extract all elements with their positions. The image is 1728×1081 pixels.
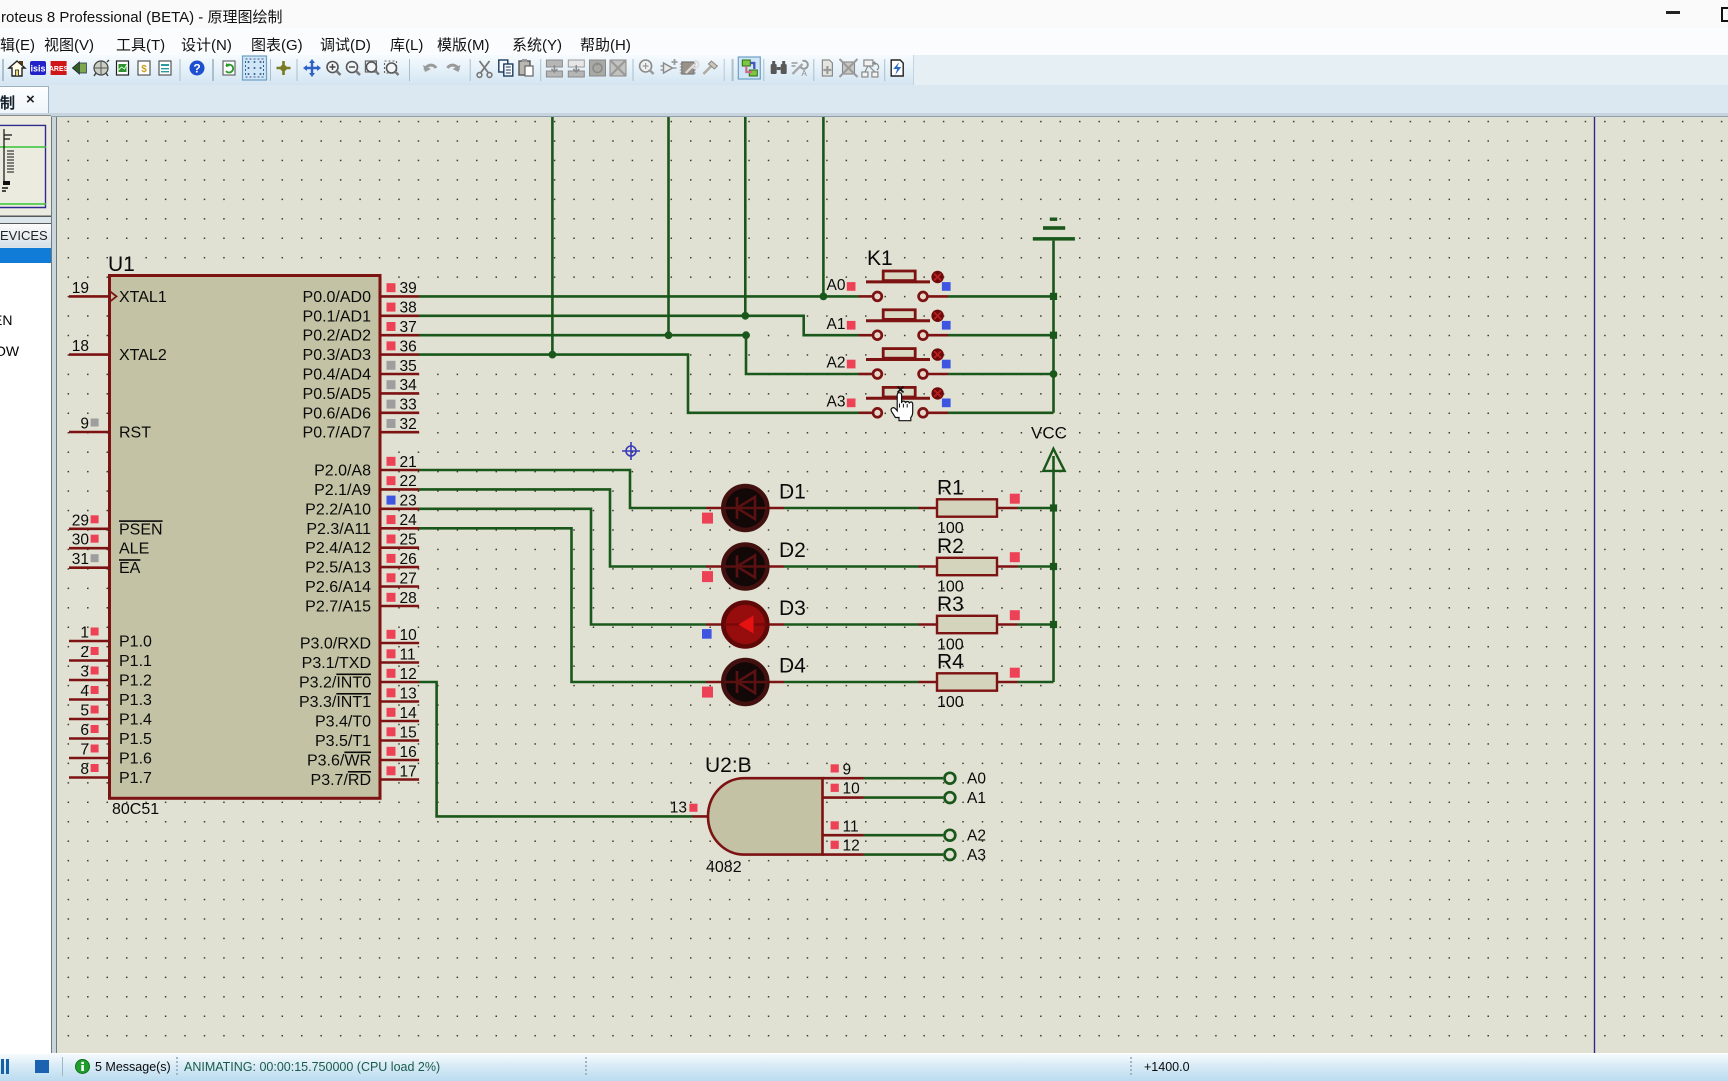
U1 pin 3 <box>69 664 110 681</box>
svg-text:16: 16 <box>400 744 417 761</box>
svg-text:37: 37 <box>400 319 417 336</box>
svg-text:P1.1: P1.1 <box>119 653 152 670</box>
svg-text:15: 15 <box>400 724 417 741</box>
svg-text:11: 11 <box>843 818 859 835</box>
U1 pin label P0.5/AD5 <box>303 386 372 403</box>
U2:B pin 10 <box>823 781 864 798</box>
U1 pin label P2.4/A12 <box>305 540 371 557</box>
U1 pin 2 <box>69 644 110 661</box>
wire V3 from top to P0.1 net <box>744 117 747 316</box>
wire P0.3 to switch A3 <box>419 355 859 413</box>
binoculars <box>771 61 787 74</box>
wire P0.2 to switch A2 <box>419 335 859 374</box>
U1 pin 29 <box>69 512 110 529</box>
origin plus <box>277 61 291 75</box>
U1 pin label P3.3/INT1 <box>299 694 371 711</box>
AND gate U2:B 4082 <box>705 754 823 876</box>
svg-text:34: 34 <box>400 377 418 394</box>
wire V2 from top to P0.2 net <box>667 117 670 335</box>
svg-text:31: 31 <box>72 551 89 568</box>
svg-text:D2: D2 <box>779 539 806 562</box>
U1 pin 17 <box>380 763 419 780</box>
U1 pin 26 <box>380 551 419 568</box>
U1 pin 30 <box>69 532 110 549</box>
wire U2:B pin9 to terminal A0 <box>864 777 944 780</box>
svg-text:P2.7/A15: P2.7/A15 <box>305 599 371 616</box>
svg-text:24: 24 <box>400 512 418 529</box>
wire U2:B pin12 to terminal A3 <box>864 853 944 856</box>
svg-text:14: 14 <box>400 705 418 722</box>
U1 pin 16 <box>380 744 419 761</box>
refresh <box>223 61 235 75</box>
svg-text:P1.2: P1.2 <box>119 673 152 690</box>
wire VCC rail <box>1052 456 1055 682</box>
svg-text:5: 5 <box>80 703 89 720</box>
home <box>9 61 25 76</box>
U1 pin 21 <box>380 454 419 471</box>
ares <box>49 61 69 75</box>
wire switch A3 to rail <box>948 411 1054 414</box>
U1 pin label P0.4/AD4 <box>303 367 372 384</box>
switch K1 element A1 <box>827 310 951 340</box>
U1 pin label P1.0 <box>119 634 152 651</box>
svg-text:9: 9 <box>80 416 89 433</box>
svg-text:XTAL1: XTAL1 <box>119 289 167 306</box>
svg-text:P0.6/AD6: P0.6/AD6 <box>303 405 372 422</box>
U2:B pin 13 (output, left) <box>670 800 709 817</box>
svg-text:P0.3/AD3: P0.3/AD3 <box>303 347 372 364</box>
U1 pin label P1.3 <box>119 692 152 709</box>
power VCC <box>1031 424 1067 471</box>
svg-text:P2.6/A14: P2.6/A14 <box>305 579 371 596</box>
svg-text:P2.2/A10: P2.2/A10 <box>305 501 371 518</box>
LED D3 <box>702 597 806 646</box>
U1 pin 27 <box>380 570 419 587</box>
junction rail/A0 <box>1050 293 1057 300</box>
zoom in <box>327 62 341 76</box>
U1 pin label P0.1/AD1 <box>303 308 372 325</box>
wire V4 from top to P0.0 net <box>822 117 825 296</box>
svg-text:25: 25 <box>400 532 417 549</box>
svg-text:A2: A2 <box>827 355 846 372</box>
doc chart <box>117 61 129 75</box>
U1 pin 19 <box>69 280 117 302</box>
U1 pin 22 <box>380 473 419 490</box>
wire R2 to VCC rail <box>1018 565 1054 568</box>
U1 pin 13 <box>380 685 419 702</box>
switch K1 element A3 <box>827 387 951 417</box>
U1 pin label P3.7/RD <box>311 772 371 789</box>
svg-text:28: 28 <box>400 590 417 607</box>
svg-text:18: 18 <box>72 338 89 355</box>
svg-text:21: 21 <box>400 454 417 471</box>
U1 pin label P0.7/AD7 <box>303 425 372 442</box>
wire V1 from top to P0.3 net <box>551 117 554 355</box>
lightning doc <box>891 60 903 76</box>
mouse cursor <box>891 387 913 421</box>
U2:B pin 9 <box>823 761 864 778</box>
isis <box>30 61 46 75</box>
doc teal <box>159 61 171 75</box>
svg-text:P0.4/AD4: P0.4/AD4 <box>303 367 372 384</box>
U1 pin label XTAL1 <box>119 289 167 306</box>
svg-text:3: 3 <box>80 664 89 681</box>
svg-text:13: 13 <box>400 685 417 702</box>
U1 pin 1 <box>69 625 110 642</box>
junction rail/R3 <box>1050 621 1057 628</box>
svg-text:?: ? <box>193 62 200 76</box>
svg-text:8: 8 <box>80 761 89 778</box>
svg-text:P0.0/AD0: P0.0/AD0 <box>303 289 372 306</box>
U1 pin label P1.7 <box>119 770 152 787</box>
LED D1 <box>702 481 806 530</box>
svg-text:K1: K1 <box>867 247 893 270</box>
U1 pin 14 <box>380 705 419 722</box>
svg-text:12: 12 <box>843 838 860 855</box>
U1 pin 11 <box>380 646 419 663</box>
U1 pin label EA <box>119 560 141 577</box>
svg-text:30: 30 <box>72 532 90 549</box>
svg-text:D3: D3 <box>779 597 806 620</box>
U1 pin label P2.7/A15 <box>305 599 371 616</box>
U1 pin 12 <box>380 666 419 683</box>
stop button <box>35 1060 49 1073</box>
svg-text:ALE: ALE <box>119 541 149 558</box>
block copy/move/rotate/delete (greyed) <box>546 60 562 77</box>
U1 pin 7 <box>69 742 110 759</box>
U1 pin 23 <box>380 493 419 510</box>
svg-text:R3: R3 <box>937 593 964 616</box>
svg-text:isis: isis <box>30 64 45 74</box>
pan arrows <box>303 59 321 77</box>
svg-text:P0.2/AD2: P0.2/AD2 <box>303 328 372 345</box>
svg-text:VCC: VCC <box>1031 424 1067 443</box>
svg-text:R1: R1 <box>937 477 964 500</box>
terminal A3 <box>945 847 986 864</box>
wrench A <box>792 61 808 78</box>
U1 pin 36 <box>380 338 419 355</box>
wire P3.2/INT0 to U2:B pin13 <box>419 682 693 816</box>
help <box>190 61 205 76</box>
U1 pin label P3.0/RXD <box>300 636 371 653</box>
svg-text:P2.5/A13: P2.5/A13 <box>305 560 371 577</box>
U1 pin label P3.2/INT0 <box>299 675 371 692</box>
U1 pin label P0.2/AD2 <box>303 328 372 345</box>
info icon <box>75 1059 90 1074</box>
svg-text:80C51: 80C51 <box>112 801 159 818</box>
zoom out <box>347 62 361 76</box>
svg-text:P2.0/A8: P2.0/A8 <box>314 463 371 480</box>
svg-text:P3.4/T0: P3.4/T0 <box>315 714 371 731</box>
cut <box>477 61 492 77</box>
svg-text:P3.3/INT1: P3.3/INT1 <box>299 694 371 711</box>
svg-text:D4: D4 <box>779 655 806 678</box>
svg-text:D1: D1 <box>779 481 806 504</box>
terminal A2 <box>945 828 986 845</box>
wire P2.2 to D3 <box>419 509 706 625</box>
svg-text:10: 10 <box>843 781 861 798</box>
wire R1 to VCC rail <box>1018 507 1054 510</box>
U1 pin label P1.6 <box>119 751 152 768</box>
remove chip X <box>840 59 858 77</box>
svg-text:P3.5/T1: P3.5/T1 <box>315 733 371 750</box>
svg-text:1: 1 <box>80 625 89 642</box>
svg-text:RST: RST <box>119 425 151 442</box>
wire switch A2 to rail <box>948 373 1054 376</box>
origin marker <box>622 442 640 460</box>
svg-text:4: 4 <box>80 683 89 700</box>
U1 pin label P1.2 <box>119 673 152 690</box>
U1 pin label P3.5/T1 <box>315 733 371 750</box>
svg-text:EA: EA <box>119 560 141 577</box>
svg-text:10: 10 <box>400 627 418 644</box>
U1 pin label RST <box>119 425 151 442</box>
U1 pin label P2.5/A13 <box>305 560 371 577</box>
opamp plus <box>661 59 678 73</box>
U1 pin 32 <box>380 416 419 433</box>
wire R4 to VCC rail <box>1018 681 1054 684</box>
svg-text:P2.4/A12: P2.4/A12 <box>305 540 371 557</box>
ground <box>1033 218 1075 241</box>
junction rail/R1 <box>1050 504 1057 511</box>
svg-text:P1.6: P1.6 <box>119 751 152 768</box>
U1 pin 25 <box>380 532 419 549</box>
U1 pin 35 <box>380 358 419 375</box>
component mode pressed <box>738 57 760 79</box>
svg-text:XTAL2: XTAL2 <box>119 347 167 364</box>
U1 pin 31 <box>69 551 110 568</box>
svg-text:P0.1/AD1: P0.1/AD1 <box>303 308 372 325</box>
svg-text:23: 23 <box>400 493 417 510</box>
wire U2:B pin11 to terminal A2 <box>864 834 944 837</box>
U1 pin 9 <box>69 416 110 433</box>
U1 pin 18 <box>69 338 110 355</box>
svg-text:39: 39 <box>400 280 417 297</box>
svg-text:35: 35 <box>400 358 417 375</box>
U1 pin label P2.3/A11 <box>306 521 371 538</box>
svg-text:P2.1/A9: P2.1/A9 <box>314 482 371 499</box>
U1 pin 34 <box>380 377 419 394</box>
U1 pin label ALE <box>119 541 149 558</box>
undo <box>423 65 436 72</box>
svg-text:P3.1/TXD: P3.1/TXD <box>302 655 371 672</box>
svg-text:6: 6 <box>80 722 89 739</box>
U1 pin 39 <box>380 280 419 297</box>
svg-text:12: 12 <box>400 666 417 683</box>
svg-text:P3.7/RD: P3.7/RD <box>311 772 371 789</box>
U1 pin label P0.6/AD6 <box>303 405 372 422</box>
new doc plus <box>822 60 832 76</box>
U1 pin 15 <box>380 724 419 741</box>
svg-text:U1: U1 <box>108 253 135 276</box>
svg-text:P1.5: P1.5 <box>119 731 152 748</box>
U1 pin 8 <box>69 761 110 778</box>
switch bank K1 label <box>867 247 893 270</box>
junction V2/P0.2 row <box>665 331 673 339</box>
svg-text:A0: A0 <box>967 771 986 788</box>
hammer <box>703 61 717 74</box>
svg-text:R2: R2 <box>937 535 964 558</box>
svg-text:A1: A1 <box>967 790 986 807</box>
U1 pin label P0.3/AD3 <box>303 347 372 364</box>
wire ground rail <box>1052 241 1055 413</box>
svg-text:P1.0: P1.0 <box>119 634 152 651</box>
terminal A1 <box>945 790 986 807</box>
svg-text:A3: A3 <box>967 847 986 864</box>
svg-text:P3.2/INT0: P3.2/INT0 <box>299 675 371 692</box>
svg-text:P3.6/WR: P3.6/WR <box>307 753 371 770</box>
svg-text:36: 36 <box>400 338 417 355</box>
svg-text:9: 9 <box>843 761 852 778</box>
U1 pin label XTAL2 <box>119 347 167 364</box>
junction V3/P0.1 row <box>741 312 749 320</box>
zoom sel <box>365 61 379 75</box>
wire D2 to R2 <box>784 565 919 568</box>
U1 pin 33 <box>380 397 419 414</box>
svg-text:ARES: ARES <box>49 66 69 73</box>
svg-text:7: 7 <box>80 742 89 759</box>
junction P0.2 corner <box>742 331 750 339</box>
resistor R3 100 <box>919 593 1020 654</box>
svg-text:13: 13 <box>670 800 687 817</box>
U1 pin 28 <box>380 590 419 607</box>
svg-text:100: 100 <box>937 694 964 711</box>
U1 pin label P1.5 <box>119 731 152 748</box>
wire D1 to R1 <box>784 507 919 510</box>
globe <box>94 60 109 76</box>
svg-text:R4: R4 <box>937 651 964 674</box>
junction rail/A1 <box>1050 332 1057 339</box>
flowchart <box>862 60 879 77</box>
zoom area grey <box>640 60 654 74</box>
microcontroller U1 80C51 <box>108 253 380 818</box>
wire P0.1 to switch A1 <box>419 316 859 335</box>
U1 pin 37 <box>380 319 419 336</box>
svg-text:$: $ <box>141 64 147 75</box>
svg-text:29: 29 <box>72 512 89 529</box>
svg-text:A: A <box>802 69 808 78</box>
svg-text:17: 17 <box>400 763 417 780</box>
zoom all <box>385 61 399 75</box>
svg-text:P0.5/AD5: P0.5/AD5 <box>303 386 372 403</box>
U1 pin 10 <box>380 627 419 644</box>
U1 pin label P3.1/TXD <box>302 655 371 672</box>
resistor R2 100 <box>919 535 1020 596</box>
svg-text:A3: A3 <box>827 393 846 410</box>
svg-text:19: 19 <box>72 280 89 297</box>
doc dollar <box>138 61 150 75</box>
U1 pin label P0.0/AD0 <box>303 289 372 306</box>
svg-text:P1.4: P1.4 <box>119 712 152 729</box>
redo <box>448 65 461 72</box>
svg-text:A2: A2 <box>967 828 986 845</box>
svg-text:4082: 4082 <box>706 859 742 876</box>
wire switch A0 to rail <box>948 295 1054 298</box>
svg-text:2: 2 <box>80 644 89 661</box>
speaker <box>72 62 86 74</box>
grip <box>2 59 4 81</box>
preview / overview window <box>0 115 51 217</box>
svg-text:U2:B: U2:B <box>705 754 752 777</box>
terminal A0 <box>945 771 987 788</box>
svg-text:P1.7: P1.7 <box>119 770 152 787</box>
svg-text:P2.3/A11: P2.3/A11 <box>306 521 371 538</box>
svg-text:38: 38 <box>400 300 417 317</box>
resistor R1 100 <box>919 477 1020 538</box>
LED D2 <box>702 539 806 588</box>
junction rail/R2 <box>1050 563 1057 570</box>
junction rail/A2 <box>1050 370 1058 378</box>
wire P2.1 to D2 <box>419 489 706 566</box>
junction V1/P0.3 row <box>549 351 557 359</box>
U1 pin 24 <box>380 512 419 529</box>
selected device row <box>0 248 51 264</box>
chip wrench <box>680 61 699 74</box>
svg-text:22: 22 <box>400 473 417 490</box>
U1 pin label P2.6/A14 <box>305 579 371 596</box>
switch K1 element A0 <box>827 271 951 301</box>
U1 pin label P2.2/A10 <box>305 501 371 518</box>
svg-text:P0.7/AD7: P0.7/AD7 <box>303 425 372 442</box>
U1 pin label P2.1/A9 <box>314 482 371 499</box>
wire switch A1 to rail <box>948 334 1054 337</box>
svg-text:26: 26 <box>400 551 417 568</box>
U2:B pin 11 <box>823 818 864 835</box>
U1 pin label PSEN <box>119 521 163 538</box>
svg-text:27: 27 <box>400 570 417 587</box>
LED D4 <box>702 655 806 704</box>
wire U2:B pin10 to terminal A1 <box>864 796 944 799</box>
svg-text:11: 11 <box>400 646 416 663</box>
paste <box>519 59 533 76</box>
svg-text:A0: A0 <box>827 277 846 294</box>
resistor R4 100 <box>919 651 1020 712</box>
wire D3 to R3 <box>784 623 919 626</box>
svg-text:P3.0/RXD: P3.0/RXD <box>300 636 371 653</box>
copy <box>499 60 513 76</box>
DEVICES header <box>0 223 51 247</box>
switch K1 element A2 <box>827 348 951 378</box>
svg-text:A1: A1 <box>827 316 846 333</box>
wire P2.0 to D1 <box>419 470 706 508</box>
svg-text:P1.3: P1.3 <box>119 692 152 709</box>
U1 pin label P3.4/T0 <box>315 714 371 731</box>
svg-text:32: 32 <box>400 416 417 433</box>
wire P2.3 to D4 <box>419 528 706 682</box>
U1 pin 4 <box>69 683 110 700</box>
U1 pin label P2.0/A8 <box>314 463 371 480</box>
U1 pin label P3.6/WR <box>307 753 371 770</box>
U1 pin label P1.1 <box>119 653 152 670</box>
U2:B pin 12 <box>823 838 864 855</box>
U1 pin 6 <box>69 722 110 739</box>
U1 pin 5 <box>69 703 110 720</box>
svg-text:PSEN: PSEN <box>119 521 163 538</box>
pause button <box>1 1059 4 1075</box>
junction V4/A0 row <box>820 293 828 301</box>
U1 pin 38 <box>380 300 419 317</box>
grid toggle pressed <box>243 56 267 80</box>
wire P0.0 to switch A0 <box>419 295 859 298</box>
wire D4 to R4 <box>784 681 919 684</box>
svg-text:33: 33 <box>400 397 417 414</box>
wire R3 to VCC rail <box>1018 623 1054 626</box>
U1 pin label P1.4 <box>119 712 152 729</box>
